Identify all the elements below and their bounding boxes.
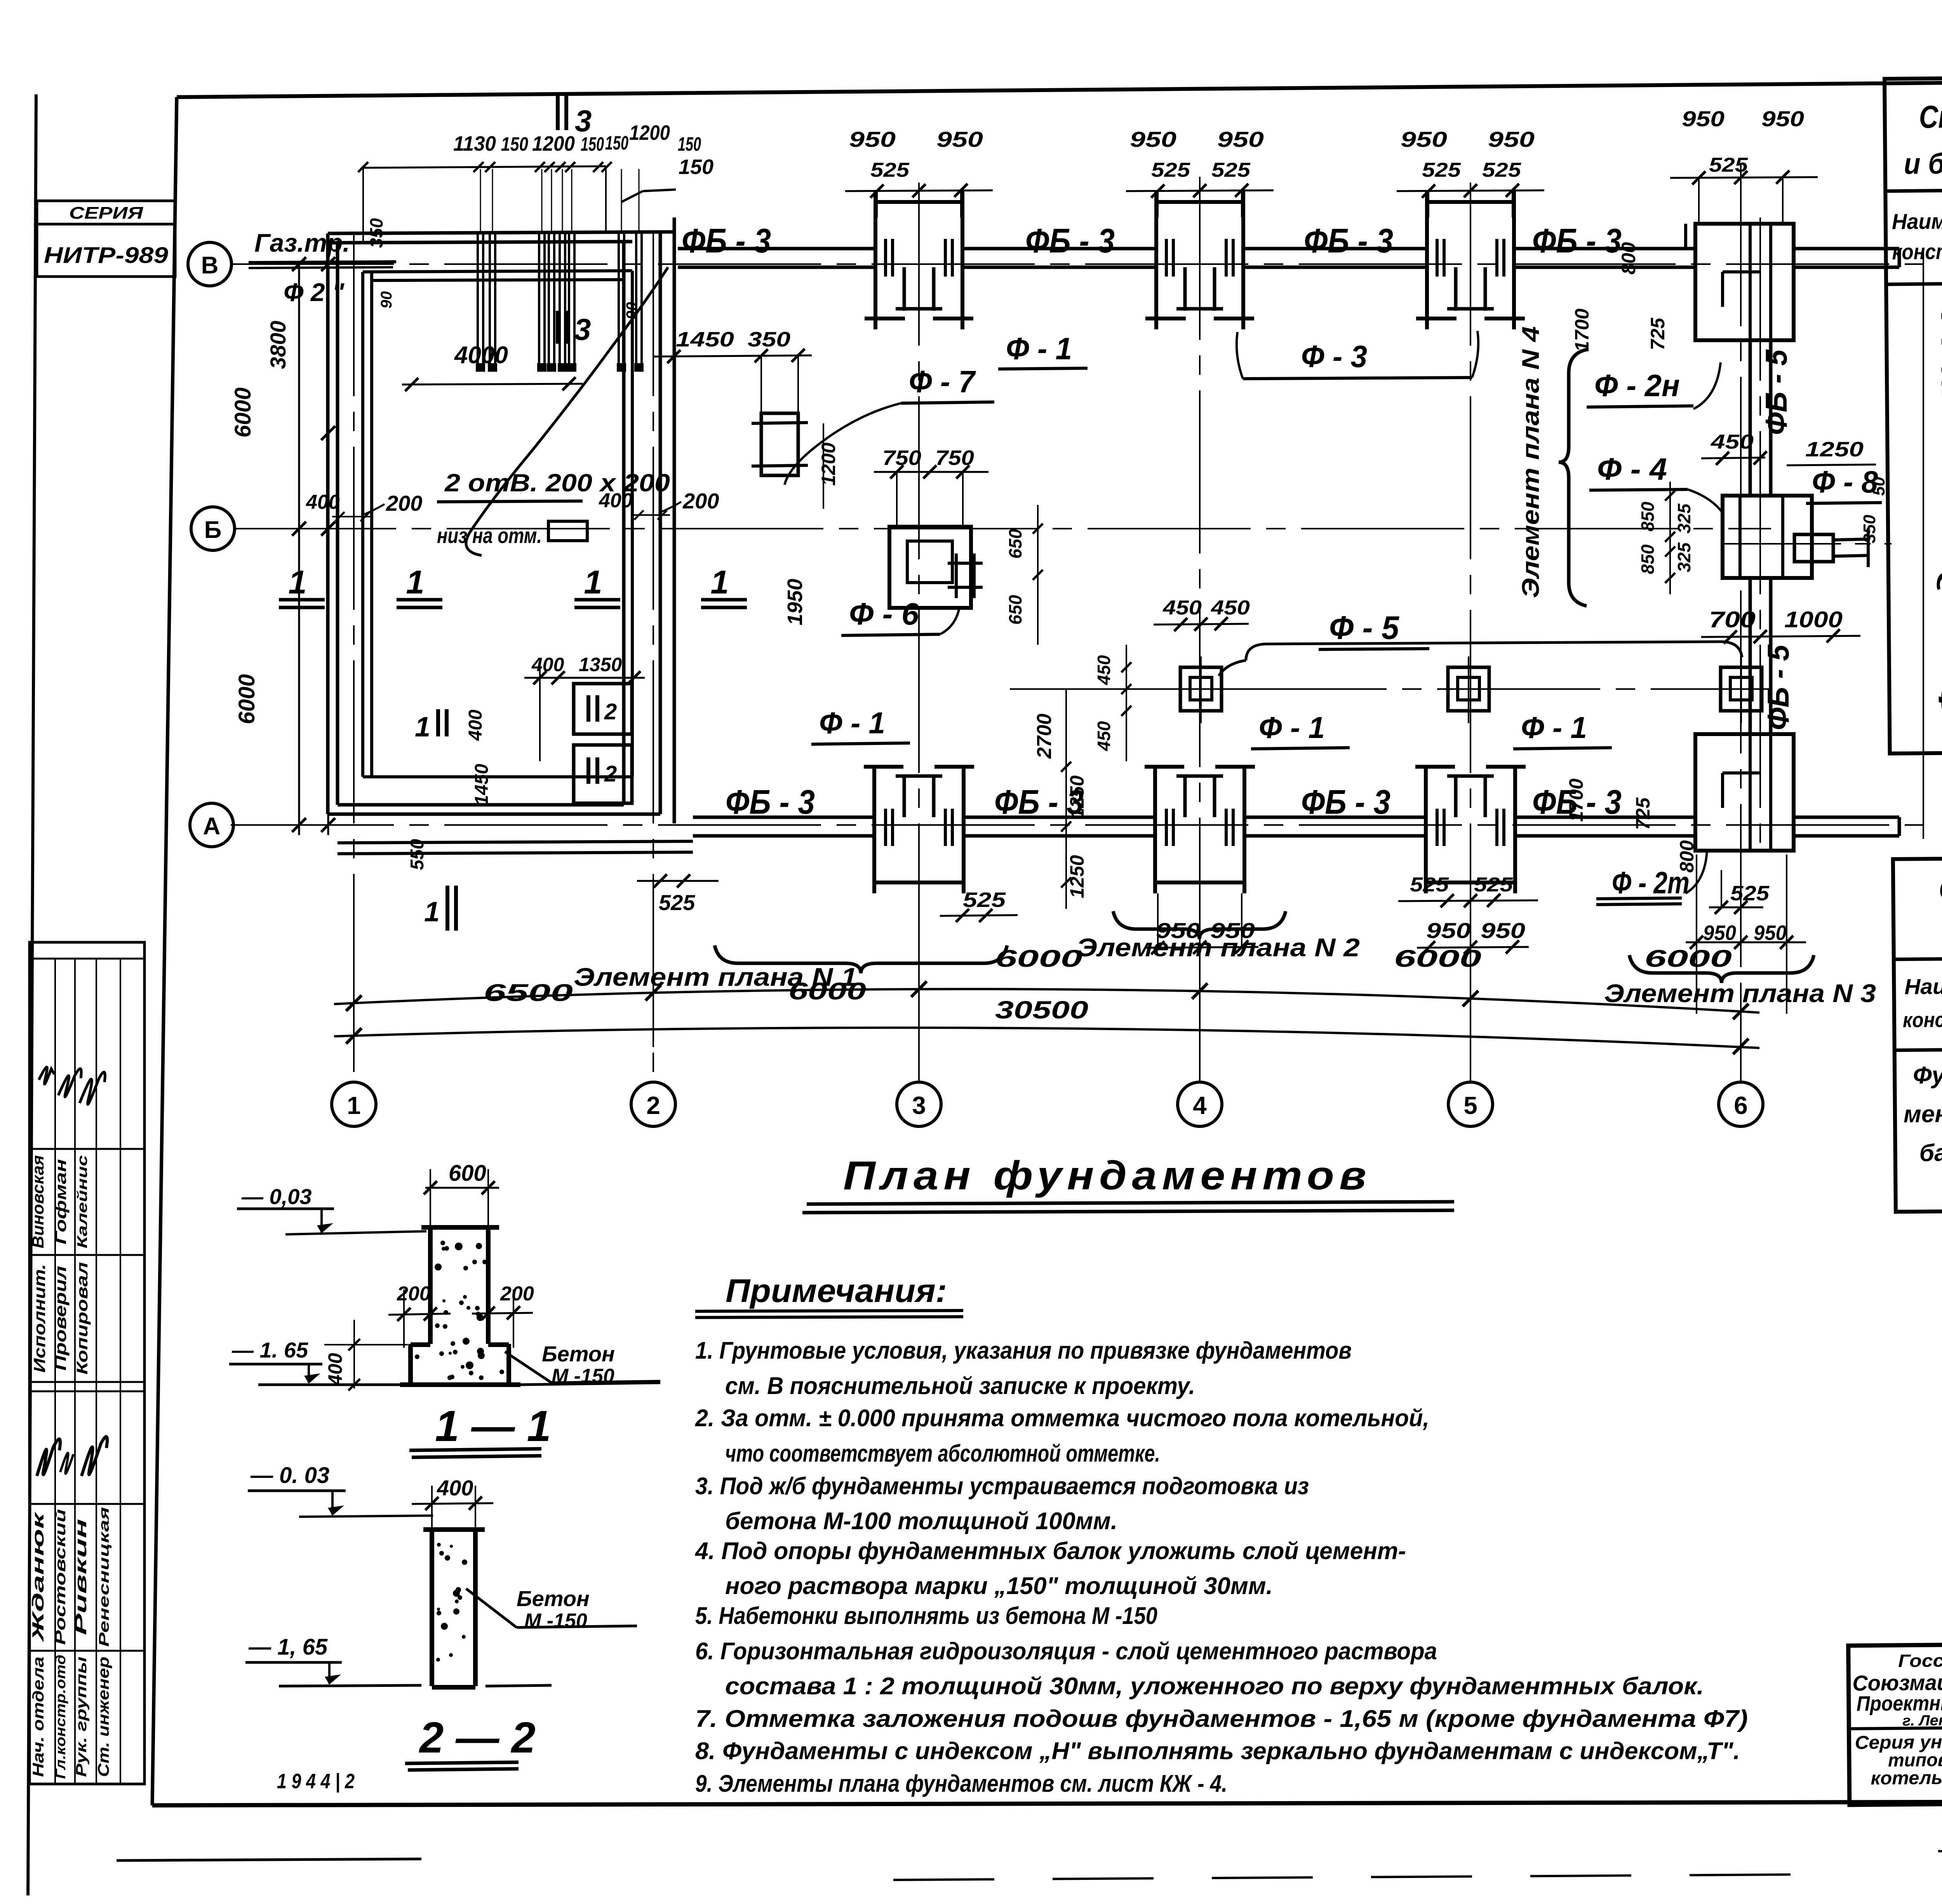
svg-text:950: 950 xyxy=(1703,921,1736,945)
svg-text:5. Набетонки выполнять из б: 5. Набетонки выполнять из бетона М -150 xyxy=(695,1603,1157,1629)
pipe extension lines xyxy=(480,169,481,232)
pit labels ||2 xyxy=(586,695,590,722)
element plan N3 brace xyxy=(1629,955,1814,983)
section 2-2 concrete leader xyxy=(466,1589,517,1627)
svg-text:90: 90 xyxy=(623,302,640,320)
table 1 header row xyxy=(1885,185,1942,191)
section 1-1 ground line xyxy=(520,1383,660,1385)
signature block scribbles group A xyxy=(39,1067,54,1084)
svg-text:6000: 6000 xyxy=(995,945,1082,972)
svg-text:200: 200 xyxy=(500,1283,534,1305)
svg-text:450: 450 xyxy=(1162,597,1202,619)
svg-text:1: 1 xyxy=(288,564,306,601)
svg-text:700: 700 xyxy=(1709,607,1756,632)
svg-text:Калейнис: Калейнис xyxy=(74,1155,90,1248)
svg-text:и бетонных конструкций на: и бетонных конструкций на маркировочную … xyxy=(1904,142,1942,180)
svg-text:1450: 1450 xyxy=(676,328,734,351)
svg-text:1700: 1700 xyxy=(1571,308,1593,352)
svg-text:2 — 2: 2 — 2 xyxy=(419,1713,536,1762)
svg-text:ного раствора марки „150": ного раствора марки „150" толщиной 30мм. xyxy=(725,1573,1273,1599)
foundation F-2t axis 6 row A xyxy=(1695,734,1794,851)
svg-text:— 0,03: — 0,03 xyxy=(241,1184,312,1209)
section 2-2 column xyxy=(430,1528,434,1686)
svg-text:План фундаментов: План фундаментов xyxy=(843,1153,1371,1198)
scan artifact line bottom left xyxy=(117,1859,421,1860)
svg-text:650: 650 xyxy=(1005,529,1025,559)
svg-text:Нач. отдела: Нач. отдела xyxy=(30,1657,47,1777)
svg-text:325: 325 xyxy=(1674,503,1694,533)
svg-text:525: 525 xyxy=(1422,159,1461,181)
svg-text:Элемент плана N 3: Элемент плана N 3 xyxy=(1604,979,1876,1008)
svg-text:200: 200 xyxy=(397,1283,431,1305)
svg-text:1200: 1200 xyxy=(532,132,575,155)
svg-text:6000: 6000 xyxy=(1644,945,1732,972)
svg-text:525: 525 xyxy=(659,890,695,915)
svg-text:950: 950 xyxy=(1401,127,1447,151)
svg-text:Спецификация монолитных желе: Спецификация монолитных железобетонных xyxy=(1919,95,1942,135)
svg-text:1000: 1000 xyxy=(1784,607,1843,632)
svg-text:950: 950 xyxy=(1754,921,1787,945)
svg-text:ФБ - 5: ФБ - 5 xyxy=(1759,349,1793,435)
svg-text:Элемент плана N 1: Элемент плана N 1 xyxy=(574,962,857,991)
FB-5 centerline xyxy=(1759,218,1761,855)
svg-text:балки: балки xyxy=(1919,1139,1942,1166)
svg-text:1 9 4 4 | 2: 1 9 4 4 | 2 xyxy=(277,1770,355,1793)
dim 525 below tank xyxy=(637,880,719,882)
svg-text:400: 400 xyxy=(306,491,340,513)
svg-text:низ на отм.: низ на отм. xyxy=(437,523,542,548)
svg-text:Газ.тр.: Газ.тр. xyxy=(254,228,350,257)
svg-text:400: 400 xyxy=(531,654,564,675)
section 1-1 footing xyxy=(408,1344,413,1385)
svg-text:450: 450 xyxy=(1094,655,1114,685)
svg-text:Ф - 6: Ф - 6 xyxy=(849,597,919,631)
svg-text:6. Горизонтальная гидроизол: 6. Горизонтальная гидроизоляция - слой ц… xyxy=(695,1638,1437,1665)
svg-text:Копировал: Копировал xyxy=(74,1262,91,1375)
svg-text:450: 450 xyxy=(1094,721,1114,751)
svg-text:525: 525 xyxy=(963,888,1006,912)
svg-text:3. Под ж/б фундаменты устра: 3. Под ж/б фундаменты устраивается подго… xyxy=(695,1473,1309,1500)
scan artifact line bottom right xyxy=(1938,1848,1942,1851)
svg-text:ментные: ментные xyxy=(1904,1100,1942,1128)
svg-text:1: 1 xyxy=(415,712,430,743)
axis circles 1-6 xyxy=(332,1082,376,1126)
svg-text:4. Под опоры фундаментных б: 4. Под опоры фундаментных балок уложить … xyxy=(694,1538,1406,1565)
svg-text:8. Фундаменты с индексом „Н": 8. Фундаменты с индексом „Н" выполнять з… xyxy=(695,1738,1740,1765)
title block (stamp) bottom right xyxy=(1848,1639,1942,1807)
svg-text:450: 450 xyxy=(1211,597,1250,619)
svg-text:Ф - 1: Ф - 1 xyxy=(1259,710,1325,745)
svg-text:М -150: М -150 xyxy=(524,1610,587,1632)
svg-text:А: А xyxy=(203,813,221,840)
svg-text:1130: 1130 xyxy=(453,132,496,155)
svg-text:150: 150 xyxy=(501,133,528,155)
svg-text:ФБ - 3: ФБ - 3 xyxy=(1301,783,1390,821)
svg-text:800: 800 xyxy=(1618,242,1639,275)
svg-text:3: 3 xyxy=(574,312,591,346)
specification table 1 (monolithic concrete) xyxy=(1885,73,1942,754)
svg-text:Примечания:: Примечания: xyxy=(726,1272,947,1309)
tank inner wall top second line xyxy=(372,280,623,280)
svg-text:2700: 2700 xyxy=(1033,714,1056,759)
svg-text:950: 950 xyxy=(1156,918,1201,943)
svg-text:850: 850 xyxy=(1637,544,1658,574)
svg-text:Жданюк: Жданюк xyxy=(29,1512,47,1643)
svg-text:400: 400 xyxy=(437,1476,473,1500)
pipe dim chain xyxy=(361,166,606,168)
svg-text:Фунда-: Фунда- xyxy=(1913,1062,1942,1089)
svg-text:2: 2 xyxy=(646,1091,660,1119)
F-8 centerline horizontal xyxy=(1724,543,1892,545)
svg-text:525: 525 xyxy=(1730,882,1770,905)
svg-text:6: 6 xyxy=(1734,1091,1748,1119)
svg-text:бетона М-100 толщиной 100мм: бетона М-100 толщиной 100мм. xyxy=(725,1508,1117,1535)
svg-text:Спецификация сборных железоб: Спецификация сборных железобетонных xyxy=(1939,867,1942,907)
title block left column: institute xyxy=(1849,1727,1942,1729)
foundation F-5 axis 4 xyxy=(1180,667,1222,711)
svg-text:Элемент плана N 4: Элемент плана N 4 xyxy=(1517,326,1544,598)
foundation F-8 xyxy=(1794,534,1833,562)
svg-text:1450: 1450 xyxy=(472,764,492,805)
svg-text:1: 1 xyxy=(710,564,729,601)
svg-text:400: 400 xyxy=(324,1353,346,1386)
foundation F-1 row A axis 3 xyxy=(872,767,876,893)
bottom dimension line (bay dims) xyxy=(334,989,1759,1013)
svg-text:Виновская: Виновская xyxy=(29,1155,47,1248)
svg-text:см. В пояснительной записке: см. В пояснительной записке к проекту. xyxy=(725,1373,1195,1399)
tank inner wall left xyxy=(361,272,364,777)
svg-text:— 0. 03: — 0. 03 xyxy=(250,1463,329,1488)
svg-text:3800: 3800 xyxy=(266,321,290,369)
svg-text:Ф - 8: Ф - 8 xyxy=(1812,465,1878,499)
element plan N4 brace (vertical) xyxy=(1559,350,1587,606)
svg-text:525: 525 xyxy=(1151,159,1190,181)
svg-text:950: 950 xyxy=(849,127,896,151)
svg-text:1200: 1200 xyxy=(629,121,670,144)
specification table 2 (precast concrete) xyxy=(1893,853,1942,1212)
svg-text:Ст. инженер: Ст. инженер xyxy=(95,1657,112,1777)
foundation F-1 row V axis 3 xyxy=(875,200,962,204)
svg-text:350: 350 xyxy=(366,218,386,248)
svg-text:525: 525 xyxy=(1482,159,1521,181)
svg-text:— 1, 65: — 1, 65 xyxy=(248,1634,328,1660)
foundation F-6 axis 3 row B xyxy=(889,527,971,608)
svg-text:725: 725 xyxy=(1647,317,1669,350)
tank bottom wall xyxy=(328,813,660,816)
svg-text:525: 525 xyxy=(1474,874,1513,896)
section 1-1 concrete speckles xyxy=(444,1246,449,1251)
svg-text:350: 350 xyxy=(748,328,790,351)
pipe sleeves through tank wall xyxy=(477,233,479,365)
svg-text:150: 150 xyxy=(678,133,701,155)
svg-text:325: 325 xyxy=(1674,542,1694,572)
svg-text:950: 950 xyxy=(1488,127,1535,151)
pit squares (section 2 openings) xyxy=(574,684,632,734)
small foundation axis B between 2-3 xyxy=(948,562,983,565)
svg-text:525: 525 xyxy=(870,159,910,181)
svg-text:Бетон: Бетон xyxy=(517,1586,590,1611)
svg-text:2 отВ. 200 х 200: 2 отВ. 200 х 200 xyxy=(444,469,670,497)
svg-text:2: 2 xyxy=(604,761,617,787)
svg-text:950: 950 xyxy=(1481,918,1525,943)
sheet outer frame border xyxy=(177,77,1942,97)
svg-text:525: 525 xyxy=(1410,874,1449,896)
svg-text:Бетон: Бетон xyxy=(542,1342,615,1366)
svg-text:котельных с котлами: котельных с котлами xyxy=(1871,1767,1942,1789)
svg-text:Ф - 2н: Ф - 2н xyxy=(1594,368,1680,403)
svg-text:30500: 30500 xyxy=(995,996,1088,1024)
foundation F-2n axis 6 row V xyxy=(1695,224,1794,340)
svg-text:2. За отм. ± 0.000 принята: 2. За отм. ± 0.000 принята отметка чисто… xyxy=(695,1405,1429,1432)
svg-text:Рук. группы: Рук. группы xyxy=(73,1657,90,1777)
section 1-1 concrete leader xyxy=(505,1352,552,1383)
svg-text:350: 350 xyxy=(1860,515,1879,543)
svg-text:1200: 1200 xyxy=(818,442,839,486)
tank outer wall left xyxy=(326,233,330,814)
svg-text:90: 90 xyxy=(378,291,395,309)
svg-text:Ф - 7: Ф - 7 xyxy=(909,364,976,399)
svg-text:Ривкин: Ривкин xyxy=(71,1519,90,1635)
element plan N2 brace xyxy=(1113,911,1286,939)
svg-text:СЕРИЯ: СЕРИЯ xyxy=(69,204,143,223)
svg-text:400: 400 xyxy=(599,489,633,512)
section 2-2 concrete speckles xyxy=(445,1555,450,1561)
svg-text:950: 950 xyxy=(1426,918,1471,943)
bottom dimension line (total 30500) xyxy=(334,1028,1759,1048)
svg-text:1: 1 xyxy=(424,896,440,928)
foundation F-3 row V axis 4 xyxy=(1156,200,1243,204)
left vertical dim line xyxy=(327,256,329,835)
axis circle V xyxy=(188,242,231,286)
svg-text:50: 50 xyxy=(1869,477,1888,496)
section mark ||3 inside tank xyxy=(556,311,560,344)
svg-text:Ф - 1: Ф - 1 xyxy=(819,706,885,740)
svg-text:В: В xyxy=(201,252,219,279)
svg-text:ФБ - 3: ФБ - 3 xyxy=(726,783,815,821)
svg-text:1250: 1250 xyxy=(1066,855,1088,898)
svg-text:ФБ - 3: ФБ - 3 xyxy=(682,221,771,260)
F-5 group axis line xyxy=(1010,688,1721,690)
svg-text:2: 2 xyxy=(604,699,617,724)
left strip box NITR-989 xyxy=(37,224,175,277)
vertical axis lines 1-6 xyxy=(353,233,355,1082)
svg-text:725: 725 xyxy=(1632,797,1654,830)
svg-text:4: 4 xyxy=(1193,1091,1207,1119)
table 2 header row xyxy=(1894,954,1942,959)
svg-text:что соответствует абсолютной: что соответствует абсолютной отметке. xyxy=(725,1440,1160,1467)
svg-text:5: 5 xyxy=(1463,1091,1477,1119)
tank outer wall top xyxy=(328,232,676,233)
scan artifact dashes bottom middle xyxy=(893,1874,1802,1880)
svg-text:М -150: М -150 xyxy=(552,1365,614,1387)
svg-text:Ф - 3: Ф - 3 xyxy=(1301,339,1367,374)
foundation F-1 row A axis 5 xyxy=(1424,767,1428,893)
svg-text:525: 525 xyxy=(1211,159,1251,181)
svg-text:1: 1 xyxy=(406,564,424,601)
svg-text:6000: 6000 xyxy=(234,674,259,724)
svg-text:950: 950 xyxy=(1761,106,1804,131)
svg-text:Ренесницкая: Ренесницкая xyxy=(96,1507,112,1647)
svg-text:1700: 1700 xyxy=(1565,778,1587,821)
signature block scribbles group B xyxy=(37,1439,60,1476)
svg-text:150: 150 xyxy=(605,132,628,154)
svg-text:Проектный институтN1: Проектный институтN1 xyxy=(1857,1690,1942,1716)
svg-text:ФБ - 5: ФБ - 5 xyxy=(1761,644,1795,730)
svg-text:6000: 6000 xyxy=(230,387,256,437)
svg-text:1250: 1250 xyxy=(1805,438,1864,461)
svg-text:Исполнит.: Исполнит. xyxy=(30,1264,49,1373)
foundation F-3 row V axis 5 xyxy=(1427,200,1514,204)
foundation beam FB-3 row A xyxy=(693,816,875,819)
svg-text:Гл.констр.отд: Гл.констр.отд xyxy=(52,1655,68,1779)
section mark ||3 top xyxy=(556,95,560,130)
svg-text:Госстрой СССР: Госстрой СССР xyxy=(1898,1650,1942,1671)
svg-text:ФБ - 3: ФБ - 3 xyxy=(1304,221,1393,260)
svg-text:Б: Б xyxy=(204,517,222,543)
axis row V line xyxy=(231,263,1926,265)
svg-text:конструкций: конструкций xyxy=(1903,1008,1942,1032)
foundation F-7 rectangle xyxy=(761,413,798,475)
svg-text:650: 650 xyxy=(1005,595,1025,625)
svg-text:150: 150 xyxy=(679,155,713,179)
svg-text:Проверил: Проверил xyxy=(51,1266,70,1371)
left strip box SERIYA xyxy=(37,201,175,224)
axis row B line xyxy=(233,528,1771,529)
svg-text:Гофман: Гофман xyxy=(52,1159,70,1244)
svg-text:950: 950 xyxy=(1130,127,1176,151)
svg-text:Ф 2 ": Ф 2 " xyxy=(284,278,345,306)
svg-text:Ф - 1: Ф - 1 xyxy=(1521,710,1587,745)
svg-text:Ф - 4: Ф - 4 xyxy=(1597,452,1667,486)
svg-text:НИТР-989: НИТР-989 xyxy=(44,243,168,268)
svg-text:Ростовский: Ростовский xyxy=(52,1509,69,1645)
svg-text:450: 450 xyxy=(1711,431,1754,453)
svg-text:1: 1 xyxy=(347,1091,361,1119)
svg-text:950: 950 xyxy=(1210,918,1255,943)
svg-text:200: 200 xyxy=(386,491,422,515)
tank lower beam under row A xyxy=(338,841,693,843)
svg-text:150: 150 xyxy=(581,133,604,155)
axis circle A xyxy=(190,803,233,847)
svg-text:1 — 1: 1 — 1 xyxy=(435,1402,551,1450)
element plan N1 brace xyxy=(715,945,1007,973)
svg-text:6500: 6500 xyxy=(484,980,573,1006)
svg-text:— 1. 65: — 1. 65 xyxy=(231,1338,308,1362)
svg-text:850: 850 xyxy=(1637,501,1658,531)
svg-text:Наименован: Наименован xyxy=(1892,208,1942,234)
axis row A line xyxy=(231,824,1926,826)
svg-text:Ф - 1: Ф - 1 xyxy=(1006,331,1072,366)
foundation F-4 xyxy=(1723,496,1812,578)
svg-text:550: 550 xyxy=(407,839,428,870)
section 2-2 ground line xyxy=(279,1685,421,1686)
axis circle B (Cyrillic Be) xyxy=(191,507,235,550)
svg-text:7. Отметка заложения подошв: 7. Отметка заложения подошв фундаментов … xyxy=(695,1706,1748,1732)
section 1-1 column xyxy=(428,1226,433,1344)
svg-text:800: 800 xyxy=(1676,840,1698,873)
axis extension lines to dim chain xyxy=(353,982,355,1058)
svg-text:состава 1 : 2 толщиной 30м: состава 1 : 2 толщиной 30мм, уложенного … xyxy=(725,1673,1704,1700)
foundation F-5 axis 5 xyxy=(1448,667,1489,711)
paper left edge line xyxy=(28,94,36,1895)
svg-text:950: 950 xyxy=(1217,127,1264,151)
svg-text:Наименов.: Наименов. xyxy=(1904,973,1942,999)
foundation beam FB-3 row V xyxy=(678,247,875,251)
foundation F-1 row A axis 4 xyxy=(1153,767,1157,893)
foundation F-5 axis 6 xyxy=(1721,667,1762,711)
svg-text:1. Грунтовые условия, указан: 1. Грунтовые условия, указания по привяз… xyxy=(695,1337,1352,1364)
svg-text:200: 200 xyxy=(682,489,719,513)
svg-text:950: 950 xyxy=(1682,106,1724,131)
svg-text:600: 600 xyxy=(449,1161,486,1186)
svg-text:1250: 1250 xyxy=(1066,775,1088,818)
svg-text:1350: 1350 xyxy=(579,654,622,675)
svg-text:525: 525 xyxy=(1709,154,1748,176)
tank leader squiggle xyxy=(466,267,668,555)
svg-text:1950: 1950 xyxy=(783,579,807,625)
svg-text:950: 950 xyxy=(936,127,983,151)
svg-text:400: 400 xyxy=(465,710,486,741)
thin vertical line right plan edge xyxy=(1923,249,1924,839)
signature block table xyxy=(30,942,144,1784)
svg-text:ФБ - 3: ФБ - 3 xyxy=(1025,221,1115,260)
svg-text:1: 1 xyxy=(584,564,602,601)
svg-text:Ф - 5: Ф - 5 xyxy=(1329,609,1399,646)
svg-text:3: 3 xyxy=(912,1091,926,1119)
svg-text:ФБ - 3: ФБ - 3 xyxy=(1532,221,1622,260)
svg-text:г. Ленинград 1970 г.: г. Ленинград 1970 г. xyxy=(1902,1712,1942,1729)
left dim line second xyxy=(298,264,300,835)
svg-text:3: 3 xyxy=(575,104,592,138)
tank right wall xyxy=(622,242,626,805)
foundation beam FB-5 vertical (axis 6) xyxy=(1749,340,1752,496)
svg-text:9. Элементы плана фундамен: 9. Элементы плана фундаментов см. лист К… xyxy=(695,1770,1227,1797)
